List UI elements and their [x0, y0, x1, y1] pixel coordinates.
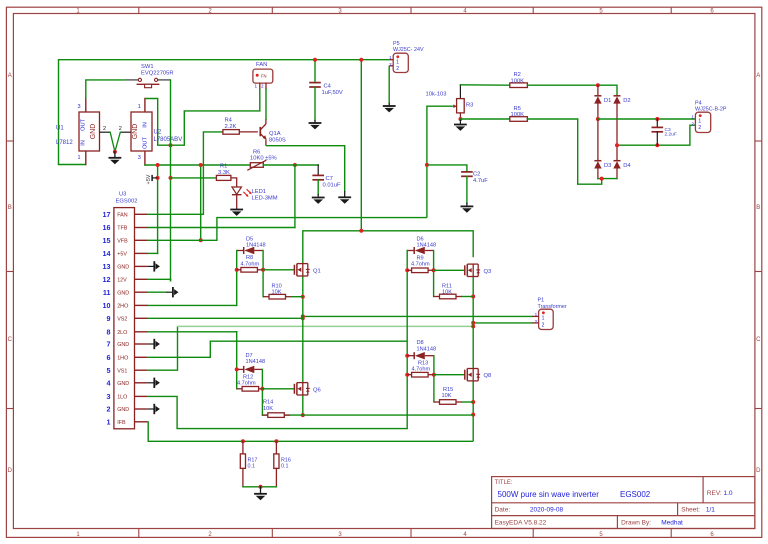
svg-text:C4: C4 — [324, 84, 332, 90]
wire 12V vertical from switch to U3 pin12 — [170, 80, 172, 281]
svg-text:Q3: Q3 — [484, 269, 492, 275]
resistor R14 10K — [268, 413, 285, 418]
svg-text:C7: C7 — [326, 176, 333, 182]
svg-text:IN: IN — [81, 140, 87, 146]
svg-text:R13: R13 — [418, 360, 428, 366]
svg-text:C: C — [8, 337, 13, 343]
wire rectifier bottom row — [598, 178, 617, 180]
svg-text:4.7ohm: 4.7ohm — [411, 262, 430, 268]
wire shunt bottom to ground — [243, 486, 277, 488]
svg-text:OUT: OUT — [81, 119, 87, 131]
svg-text:A: A — [8, 73, 12, 79]
wire rectifier out row1 to P4 — [598, 118, 696, 120]
svg-text:+5V: +5V — [146, 174, 152, 184]
svg-text:Q1A: Q1A — [269, 131, 281, 137]
svg-text:5: 5 — [107, 366, 111, 375]
U3 pin 12 12V — [135, 278, 148, 280]
U3 pin 2 GND — [135, 408, 148, 410]
svg-text:R3: R3 — [466, 103, 473, 109]
svg-text:10K0 ±5%: 10K0 ±5% — [250, 156, 277, 162]
svg-text:R6: R6 — [253, 149, 260, 155]
svg-text:1N4148: 1N4148 — [417, 346, 437, 352]
resistor R10 10K — [263, 296, 269, 298]
U3 pin 14 +5V — [135, 252, 148, 254]
wire R5 to rectifier bottom — [578, 119, 602, 184]
svg-text:L7812: L7812 — [56, 140, 73, 146]
svg-text:1: 1 — [698, 118, 701, 124]
resistor R1 3.3K — [171, 177, 217, 179]
svg-text:7: 7 — [107, 340, 111, 349]
svg-text:500W pure sin wave inverter: 500W pure sin wave inverter — [498, 490, 600, 499]
wire VFB pin15 — [148, 239, 217, 241]
wire battery rail to H-bridge — [360, 60, 362, 231]
U3 pin 5 VS1 — [135, 369, 148, 371]
capacitor C3 2.2uF — [656, 119, 658, 127]
svg-text:2: 2 — [698, 125, 701, 131]
svg-text:1: 1 — [396, 59, 399, 65]
wire +5V pin14 — [148, 252, 158, 254]
svg-text:1: 1 — [77, 155, 80, 161]
LED LED1 — [231, 178, 237, 187]
wire Q1A emitter to ground — [266, 146, 345, 192]
wire 2LO ladder column — [236, 332, 238, 389]
svg-text:GND: GND — [132, 124, 139, 140]
wire gate Q3 — [434, 269, 465, 271]
svg-text:R9: R9 — [417, 255, 424, 261]
svg-text:R11: R11 — [442, 283, 452, 289]
diode D2 — [614, 95, 621, 97]
thermistor R6 10K0 — [250, 163, 263, 168]
svg-text:EGS002: EGS002 — [620, 490, 651, 499]
svg-text:10K: 10K — [442, 290, 452, 296]
ground — [312, 197, 325, 199]
svg-text:B: B — [8, 205, 12, 211]
connector P4 WJ25C-B-2P — [695, 112, 710, 132]
svg-text:Q1: Q1 — [313, 268, 321, 274]
svg-text:3.3K: 3.3K — [218, 170, 230, 176]
svg-text:GND: GND — [117, 342, 129, 348]
svg-text:1: 1 — [255, 84, 258, 89]
svg-text:TITLE:: TITLE: — [495, 480, 513, 486]
resistor R11 10K — [434, 296, 440, 298]
svg-text:Q6: Q6 — [313, 387, 321, 393]
svg-text:1LO: 1LO — [117, 395, 127, 401]
svg-text:SW1: SW1 — [141, 64, 154, 70]
svg-text:10K: 10K — [442, 393, 452, 399]
wire 2HO ladder column — [236, 251, 238, 306]
svg-text:U3: U3 — [119, 192, 126, 198]
node U1 pin2 / U2 pin2 ground V — [100, 131, 111, 133]
wire TFB vertical — [294, 165, 296, 228]
potentiometer R3 10k-103 — [459, 85, 461, 99]
svg-text:0.1: 0.1 — [281, 463, 289, 469]
svg-text:0.1: 0.1 — [248, 463, 256, 469]
svg-text:17: 17 — [103, 210, 111, 219]
wire D7-R12 gate column — [261, 369, 263, 415]
transistor Q8 — [464, 370, 466, 380]
U3 pin 6 1HO — [135, 356, 148, 358]
svg-text:14: 14 — [103, 249, 111, 258]
svg-text:16: 16 — [103, 223, 111, 232]
svg-text:9: 9 — [107, 314, 111, 323]
svg-text:1: 1 — [107, 417, 111, 426]
svg-text:FAN: FAN — [256, 62, 267, 68]
svg-text:C: C — [756, 337, 761, 343]
svg-text:R4: R4 — [225, 118, 233, 124]
svg-text:R15: R15 — [443, 387, 453, 393]
svg-text:P1: P1 — [538, 298, 545, 304]
ground — [383, 105, 396, 107]
diode D1 — [597, 85, 599, 96]
capacitor C7 0.01uF — [317, 165, 319, 175]
ground flag pin11 — [148, 291, 167, 293]
svg-text:D4: D4 — [623, 163, 631, 169]
resistor R9 4.7ohm — [407, 269, 411, 271]
svg-text:2: 2 — [535, 319, 538, 324]
svg-text:15: 15 — [103, 236, 111, 245]
wire 24V rail top — [59, 60, 390, 165]
wire R6 node to C2 — [427, 165, 467, 172]
svg-text:LED1: LED1 — [252, 189, 267, 195]
diode D6 1N4148 — [407, 250, 414, 252]
svg-text:EasyEDA V5.8.22: EasyEDA V5.8.22 — [495, 520, 547, 527]
svg-text:WJ25C- 24V: WJ25C- 24V — [393, 47, 424, 53]
svg-text:GND: GND — [117, 381, 129, 387]
regulator U1 L7812 — [85, 98, 87, 112]
svg-text:EVQ22705R: EVQ22705R — [141, 70, 174, 76]
resistor R2 100K — [460, 84, 509, 86]
wire U2 in link (switch/fan 12V) — [145, 89, 260, 146]
svg-text:2020-09-08: 2020-09-08 — [530, 507, 564, 514]
svg-text:U1: U1 — [56, 126, 64, 132]
net flag +5V — [151, 175, 153, 181]
wire D8-R13 gate column — [433, 356, 435, 402]
wire 12V pin12 — [148, 278, 171, 280]
svg-text:10K: 10K — [272, 290, 282, 296]
U3 pin 13 GND — [135, 265, 148, 267]
svg-text:TFB: TFB — [117, 226, 128, 232]
wire U1 input bottom — [59, 164, 86, 166]
ground — [109, 157, 122, 159]
ground — [230, 209, 243, 211]
svg-text:LED-3MM: LED-3MM — [252, 196, 278, 202]
svg-text:1N4148: 1N4148 — [246, 359, 266, 365]
wire gate Q6 — [262, 388, 294, 390]
ground — [454, 124, 467, 126]
svg-text:WJ25C-B-2P: WJ25C-B-2P — [695, 106, 727, 112]
resistor R17 0.1 — [241, 439, 245, 443]
svg-text:C2: C2 — [473, 171, 480, 177]
svg-text:2: 2 — [396, 66, 399, 72]
svg-text:IN: IN — [143, 122, 149, 128]
wire 1HO pin6 — [148, 341, 408, 357]
svg-text:VS1: VS1 — [117, 368, 127, 374]
svg-text:100K: 100K — [511, 112, 525, 118]
wire VFB riser — [217, 218, 427, 241]
svg-text:10k-103: 10k-103 — [426, 91, 447, 97]
svg-text:2: 2 — [261, 84, 264, 89]
svg-text:2LO: 2LO — [117, 330, 127, 336]
svg-text:0.01uF: 0.01uF — [323, 183, 342, 189]
wire D5-R8 gate column — [262, 251, 264, 297]
U3 pin 11 GND — [135, 291, 148, 293]
svg-text:D2: D2 — [623, 98, 630, 104]
ground flag pin4 — [148, 382, 154, 384]
U3 pin 8 2LO — [135, 331, 148, 333]
svg-text:Date:: Date: — [495, 507, 511, 514]
wire P1 pin1 row — [303, 315, 533, 317]
diode D8 1N4148 — [407, 355, 414, 357]
transistor Q1 — [293, 265, 295, 275]
regulator U2 L7805ABV — [144, 99, 146, 113]
svg-text:Q8: Q8 — [484, 373, 492, 379]
svg-text:4.7ohm: 4.7ohm — [237, 381, 256, 387]
wire shunt row — [262, 414, 473, 416]
wire VS1 pin5 (highlighted net) — [148, 326, 178, 370]
diode D4 — [614, 160, 621, 162]
wire U3 FAN pin to R4 — [148, 132, 223, 214]
svg-text:R12: R12 — [243, 374, 253, 380]
svg-text:1: 1 — [389, 55, 392, 60]
U3 pin 1 IFB — [135, 421, 148, 423]
svg-text:D: D — [756, 468, 761, 474]
svg-text:Sheet:: Sheet: — [681, 507, 700, 514]
svg-text:D8: D8 — [417, 340, 424, 346]
svg-text:D5: D5 — [246, 236, 253, 242]
svg-text:2: 2 — [691, 122, 694, 127]
resistor R5 100K — [460, 118, 509, 120]
wire 2LO pin8 — [148, 331, 237, 333]
ground — [254, 493, 267, 495]
svg-text:GND: GND — [117, 407, 129, 413]
net +5V vertical U2 out — [145, 164, 250, 166]
svg-text:FN: FN — [261, 74, 267, 79]
wire right bridge lower column / sense return — [472, 381, 474, 441]
svg-text:VFB: VFB — [117, 239, 128, 245]
resistor R15 10K — [434, 401, 440, 403]
svg-text:2HO: 2HO — [117, 304, 128, 310]
svg-text:R10: R10 — [272, 283, 282, 289]
svg-text:12: 12 — [103, 275, 111, 284]
wire rectifier out row2 to P4 — [617, 125, 695, 145]
switch SW1 EVQ22705R — [125, 79, 138, 81]
svg-text:11: 11 — [103, 288, 111, 297]
wire left bridge lower column — [302, 395, 304, 415]
svg-text:Transformer: Transformer — [538, 304, 567, 310]
svg-text:IFB: IFB — [117, 420, 126, 426]
svg-text:1.0: 1.0 — [724, 490, 733, 497]
wire R2 to D1/D2 — [598, 85, 617, 96]
wire drain rail — [303, 231, 473, 264]
svg-text:4: 4 — [107, 378, 111, 387]
wire VFB tap vertical — [200, 165, 202, 240]
wire U1 out to switch — [86, 80, 125, 98]
svg-text:6: 6 — [107, 353, 111, 362]
wire 1LO pin3 — [148, 396, 408, 428]
wire P5 pin2 to ground — [388, 66, 390, 104]
wire P1 pin2 row — [473, 322, 532, 324]
svg-text:13: 13 — [103, 262, 111, 271]
svg-text:4.7ohm: 4.7ohm — [412, 367, 431, 373]
transistor Q6 — [293, 384, 295, 394]
svg-text:2: 2 — [107, 405, 111, 414]
U3 pin 16 TFB — [135, 227, 148, 229]
wire FAN pin2 to Q1A collector — [265, 89, 267, 119]
svg-text:R8: R8 — [246, 255, 253, 261]
svg-text:8050S: 8050S — [269, 137, 286, 143]
svg-text:+5V: +5V — [117, 252, 127, 258]
diode D7 1N4148 — [237, 368, 244, 370]
U3 pin 10 2HO — [135, 304, 148, 306]
svg-text:1: 1 — [542, 316, 545, 322]
svg-text:8: 8 — [107, 327, 111, 336]
svg-text:Drawn By:: Drawn By: — [621, 520, 651, 527]
U3 pin 15 VFB — [135, 239, 148, 241]
ground — [309, 122, 322, 124]
ground — [461, 205, 474, 207]
wire IFB pin1 — [148, 422, 474, 442]
transistor Q3 — [464, 265, 466, 275]
resistor R8 4.7ohm — [237, 269, 241, 271]
resistor R16 0.1 — [274, 439, 278, 443]
connector FAN — [253, 69, 273, 83]
svg-text:100K: 100K — [511, 78, 525, 84]
ground — [338, 196, 351, 198]
U3 pin 9 VS2 — [135, 317, 148, 319]
wire 2HO pin10 — [148, 304, 237, 306]
svg-text:VS2: VS2 — [117, 317, 127, 323]
svg-text:1: 1 — [138, 104, 141, 110]
svg-text:1: 1 — [535, 312, 538, 317]
svg-text:1N4148: 1N4148 — [246, 243, 266, 249]
svg-text:R2: R2 — [514, 72, 521, 78]
capacitor C4 1uF,50V — [314, 60, 316, 83]
U3 pin 7 GND — [135, 343, 148, 345]
svg-text:R14: R14 — [263, 400, 273, 406]
svg-text:A: A — [756, 73, 760, 79]
U3 pin 4 GND — [135, 382, 148, 384]
svg-text:REV:: REV: — [707, 490, 722, 497]
svg-text:1/1: 1/1 — [706, 507, 715, 514]
svg-text:D1: D1 — [604, 98, 611, 104]
svg-text:FAN: FAN — [117, 213, 128, 219]
wire TFB pin16 — [148, 227, 295, 229]
wire 1HO/1LO ladder column — [406, 251, 408, 429]
capacitor C2 4.7uF — [461, 171, 473, 173]
svg-text:GND: GND — [117, 265, 129, 271]
svg-text:10: 10 — [103, 301, 111, 310]
svg-text:D7: D7 — [246, 353, 253, 359]
U3 pin 3 1LO — [135, 395, 148, 397]
svg-text:GND: GND — [90, 124, 97, 140]
resistor R13 4.7ohm — [407, 374, 411, 376]
connector P5 WJ25C-24V — [393, 53, 408, 72]
resistor R12 4.7ohm — [237, 388, 242, 390]
resistor R4 2.2K — [223, 130, 239, 135]
svg-text:1N4148: 1N4148 — [417, 243, 437, 249]
svg-text:2: 2 — [103, 126, 106, 132]
svg-text:3: 3 — [138, 155, 141, 161]
wire gate Q1 — [263, 269, 294, 271]
svg-text:4.7uF: 4.7uF — [473, 178, 488, 184]
connector P1 Transformer — [539, 309, 554, 329]
wire left bridge column — [302, 276, 304, 382]
svg-text:OUT: OUT — [143, 137, 149, 149]
svg-text:2.2K: 2.2K — [225, 124, 237, 130]
svg-text:D: D — [8, 468, 13, 474]
wire gate Q8 — [434, 374, 465, 376]
node R6 right / TFB — [293, 163, 297, 167]
svg-text:12V: 12V — [117, 278, 127, 284]
svg-text:2.2uF: 2.2uF — [665, 131, 677, 137]
svg-text:2: 2 — [119, 126, 122, 132]
svg-text:1HO: 1HO — [117, 356, 128, 362]
svg-text:GND: GND — [117, 290, 129, 296]
svg-text:3: 3 — [107, 392, 111, 401]
transistor Q1A 8050S — [259, 127, 261, 136]
svg-text:Medhat: Medhat — [661, 520, 683, 527]
svg-text:2: 2 — [542, 323, 545, 329]
svg-text:EGS002: EGS002 — [116, 199, 138, 205]
svg-text:R1: R1 — [220, 164, 227, 170]
ground flag pin2 — [148, 408, 154, 410]
wire D6-R9 gate column — [433, 251, 435, 297]
wire right bridge column — [472, 277, 474, 369]
svg-text:D3: D3 — [604, 163, 611, 169]
ground flag pin13 — [148, 265, 154, 267]
ground flag pin7 — [148, 343, 154, 345]
svg-text:10K: 10K — [263, 406, 273, 412]
U3 pin 17 FAN — [135, 213, 148, 215]
wire VS2 pin9 — [148, 317, 303, 319]
svg-text:3: 3 — [77, 104, 80, 110]
svg-text:1: 1 — [691, 115, 694, 120]
diode D3 — [596, 117, 600, 121]
diode D5 1N4148 — [237, 250, 244, 252]
IC U3 EGS002 — [114, 208, 135, 429]
svg-text:D6: D6 — [417, 236, 424, 242]
svg-text:1uF,50V: 1uF,50V — [322, 90, 343, 96]
wire VFB riser to wiper — [427, 106, 453, 217]
svg-text:4.7ohm: 4.7ohm — [241, 261, 260, 267]
title block — [492, 477, 755, 529]
svg-text:B: B — [756, 205, 760, 211]
